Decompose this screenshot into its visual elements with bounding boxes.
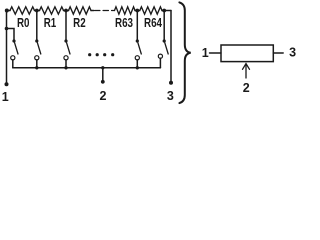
resistor R64: [140, 7, 162, 14]
brace }: [179, 2, 190, 103]
switch S2 blade: [67, 43, 70, 54]
node: bus junction under S2: [64, 66, 67, 69]
node: J4 junction: [162, 9, 166, 13]
switch S1 contact circle: [35, 56, 39, 60]
svg-text:R2: R2: [73, 16, 86, 30]
svg-text:3: 3: [289, 46, 296, 60]
switch S0 blade: [15, 43, 18, 54]
node: chain left corner junction: [5, 9, 9, 13]
wire: chain J0-J1: [35, 10, 40, 12]
ellipsis dots between switches: [88, 53, 91, 56]
node: S4 pivot: [163, 39, 166, 42]
wire: chain J1-J2: [64, 10, 69, 12]
node: bus junction node 2: [101, 66, 104, 69]
wiper arrow head: [243, 64, 250, 70]
node: terminal 2 end dot: [101, 80, 105, 84]
wire: dashed continuation (omitted resistors): [95, 10, 114, 12]
wire: chain right end to corner: [162, 10, 171, 12]
node: terminal 1 end dot: [5, 82, 9, 86]
wire: switch S4 stub from J4: [163, 11, 165, 41]
wire: lead from box to 3: [273, 52, 283, 54]
node: J2 junction: [64, 9, 68, 13]
svg-text:R1: R1: [44, 16, 57, 30]
svg-text:1: 1: [202, 46, 209, 60]
switch S0 contact circle: [11, 56, 15, 60]
wire: S3 contact to bus: [136, 60, 138, 68]
svg-text:2: 2: [243, 81, 250, 95]
wire: solid stub before dashed break: [91, 10, 94, 12]
wire: S2 contact to bus: [65, 60, 67, 68]
node: terminal 3 end dot: [169, 81, 173, 85]
resistor R2: [69, 7, 92, 14]
wire: chain R63-R64: [135, 10, 140, 12]
switch S4 contact circle: [158, 54, 162, 58]
resistor R63: [115, 7, 136, 14]
node: S3 pivot: [136, 39, 139, 42]
switch S3 blade: [138, 43, 141, 54]
svg-text:2: 2: [100, 89, 107, 103]
wire: switch S3 stub from J3: [136, 11, 138, 41]
wiper arrow stem: [245, 64, 247, 78]
wire: S1 contact to bus: [36, 60, 38, 68]
wire: common wiper bus: [13, 67, 161, 69]
svg-text:R0: R0: [17, 16, 30, 30]
svg-text:1: 1: [2, 90, 9, 104]
wire: node 2 stub: [102, 68, 104, 82]
node: branch junction on terminal-1 wire: [5, 27, 9, 31]
wire: switch S1 stub from J1: [36, 11, 38, 41]
wire: switch S2 stub from J2: [65, 11, 67, 41]
resistor box (equivalent potentiometer body): [221, 45, 273, 62]
svg-text:R63: R63: [115, 16, 133, 30]
node: S2 pivot: [64, 39, 67, 42]
wire: terminal 1 vertical: [6, 11, 8, 85]
node: bus junction under S3: [136, 66, 139, 69]
wire: S0 contact to bus (bus left corner): [12, 60, 14, 68]
node: bus junction under S1: [35, 66, 38, 69]
node: J3 junction: [135, 9, 139, 13]
svg-text:3: 3: [167, 89, 174, 103]
node: J1 junction: [35, 9, 39, 13]
resistor R0: [10, 7, 35, 14]
wire: top chain left stub: [7, 10, 11, 12]
switch S1 blade: [37, 43, 40, 54]
wire: terminal 3 vertical: [170, 11, 172, 83]
switch S3 contact circle: [135, 56, 139, 60]
wire: S4 contact to bus (bus right corner): [159, 58, 161, 68]
node: S1 pivot: [35, 39, 38, 42]
svg-text:R64: R64: [144, 16, 162, 30]
switch S2 contact circle: [64, 56, 68, 60]
switch S4 blade: [165, 43, 168, 54]
resistor R1: [40, 7, 64, 14]
node: S0 pivot: [12, 39, 15, 42]
wire: switch S0 branch from terminal-1 wire: [7, 29, 15, 41]
wire: lead from 1 to box: [210, 52, 222, 54]
